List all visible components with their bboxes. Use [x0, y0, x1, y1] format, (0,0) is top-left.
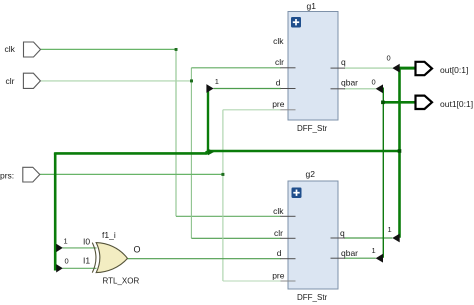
node clr junction — [190, 79, 193, 82]
svg-text:1: 1 — [388, 225, 392, 234]
xor gate U f1_i — [92, 243, 127, 273]
bus main horizontal left segment — [55, 152, 207, 153]
svg-text:f1_i: f1_i — [102, 230, 116, 240]
bus main horizontal right segment — [207, 150, 400, 153]
wire clr port to junction — [40, 80, 192, 82]
wire g2.qbar horizontal — [344, 257, 376, 259]
tap triangle g2.q — [392, 234, 399, 243]
svg-text:I0: I0 — [83, 236, 90, 246]
output port out — [416, 62, 433, 75]
tap triangle g1.q — [392, 64, 399, 73]
svg-text:clr: clr — [275, 57, 284, 67]
output port out1 — [416, 96, 433, 109]
svg-text:pre: pre — [272, 271, 285, 281]
tap triangle g2.qbar — [376, 254, 383, 263]
pin stub g1.q — [331, 67, 346, 69]
svg-text:clk: clk — [273, 206, 284, 216]
wire pre vertical — [222, 110, 224, 281]
wire clk vertical to g2.clk — [175, 49, 177, 216]
pin stub g2.qbar — [331, 257, 346, 259]
junction arrow at bus jog — [208, 149, 214, 156]
svg-text:0: 0 — [387, 54, 391, 63]
svg-text:0: 0 — [372, 78, 376, 87]
svg-text:g2: g2 — [306, 169, 316, 179]
bus jog vertical — [205, 151, 208, 155]
wire g1.qbar horizontal — [344, 88, 376, 90]
node prst junction — [221, 173, 224, 176]
svg-text:g1: g1 — [307, 1, 317, 11]
wire g1.pre horizontal — [223, 109, 281, 111]
expand icon g1 — [291, 17, 301, 28]
wire XOR output to g2.d — [128, 258, 282, 260]
pin stub g1.d — [281, 88, 296, 90]
svg-text:1: 1 — [372, 246, 376, 255]
pin stub g2.d — [281, 258, 296, 260]
wire clr vertical — [190, 68, 192, 239]
svg-text:out1[0:1]: out1[0:1] — [440, 99, 473, 109]
wire g2.clk horizontal — [176, 215, 281, 217]
input port prst — [23, 167, 40, 182]
pin stub g2.q — [331, 237, 346, 239]
tap triangle XOR I0 — [56, 244, 63, 252]
tap triangle g1.d — [206, 84, 213, 93]
bus out1 horizontal to port — [383, 101, 416, 104]
svg-text:DFF_Str: DFF_Str — [297, 293, 328, 302]
tap triangle g1.qbar — [376, 84, 383, 93]
svg-text:DFF_Str: DFF_Str — [297, 124, 328, 133]
svg-text:1: 1 — [64, 237, 68, 246]
wire g2.q horizontal — [344, 237, 392, 239]
wire g1.q horizontal — [344, 67, 392, 69]
input port clk — [24, 42, 41, 57]
svg-text:d: d — [277, 248, 282, 258]
svg-text:prs:: prs: — [0, 171, 14, 181]
svg-text:I1: I1 — [83, 256, 90, 266]
bus out1 vertical — [382, 88, 384, 258]
expand icon g2 — [292, 188, 302, 199]
flip-flop block U g1 — [288, 12, 338, 121]
svg-text:clk: clk — [5, 44, 16, 54]
tap triangle XOR I1 — [56, 264, 63, 272]
bus out vertical — [398, 67, 401, 238]
svg-text:d: d — [276, 78, 281, 88]
pin stub g1.clr — [281, 67, 296, 69]
svg-text:clk: clk — [273, 36, 284, 46]
svg-text:q: q — [341, 57, 346, 67]
input port clr — [23, 73, 40, 88]
pin stub g2.clk — [281, 215, 296, 217]
wire clk port to bend — [41, 48, 177, 50]
svg-text:0: 0 — [65, 257, 69, 266]
pin stub g1.qbar — [331, 88, 346, 90]
node clk bend junction — [175, 48, 178, 51]
svg-text:O: O — [134, 245, 141, 255]
svg-text:q: q — [340, 228, 345, 238]
pin stub g1.pre — [281, 109, 296, 111]
svg-text:qbar: qbar — [341, 248, 358, 258]
wire prst port to junction — [39, 173, 223, 175]
pin stub g2.pre — [281, 280, 296, 282]
node out1 junction — [381, 101, 385, 105]
svg-text:clr: clr — [274, 228, 283, 238]
svg-text:qbar: qbar — [341, 78, 358, 88]
bus out horizontal to port — [399, 67, 417, 70]
wire g2.clr horizontal — [191, 237, 281, 239]
node bus junction at out vertical — [398, 149, 402, 153]
svg-text:RTL_XOR: RTL_XOR — [103, 277, 140, 286]
flip-flop block U g2 — [288, 181, 338, 289]
wire XOR I0 input — [63, 247, 97, 249]
bus left vertical to XOR taps — [54, 153, 57, 270]
svg-text:out[0:1]: out[0:1] — [440, 65, 468, 75]
svg-text:pre: pre — [272, 99, 285, 109]
svg-text:1: 1 — [215, 77, 219, 86]
wire g2.pre horizontal — [223, 280, 281, 282]
wire g1.clr horizontal — [191, 67, 281, 69]
wire XOR I1 input — [63, 267, 97, 269]
wire g1.d horizontal — [213, 88, 281, 90]
svg-text:clr: clr — [6, 76, 15, 86]
pin stub g2.clr — [281, 237, 296, 239]
bus g1.d tap vertical — [207, 89, 209, 153]
